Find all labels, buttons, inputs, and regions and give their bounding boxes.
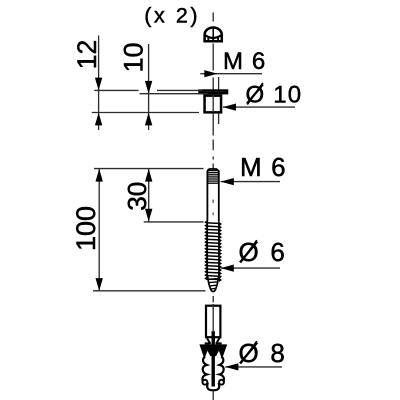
- Ø8 slash overlay: [240, 341, 256, 364]
- collar nub right: [216, 342, 222, 344]
- Ø6 slash overlay: [240, 240, 256, 263]
- dimension 100: [71, 169, 103, 291]
- threaded stud M6x100: [206, 169, 221, 292]
- svg-text:10: 10: [119, 42, 149, 72]
- dimension 10: [119, 42, 153, 130]
- arrow Ø10: [223, 104, 236, 111]
- collar nub left: [205, 342, 211, 344]
- leader Ø10: [223, 106, 295, 108]
- svg-text:(x 2): (x 2): [144, 3, 200, 27]
- plug center slot bar: [211, 331, 214, 386]
- thread line right of centerline (lower): [218, 114, 220, 124]
- extension line flange top right: [157, 89, 203, 91]
- extension line thread end: [144, 221, 204, 223]
- screw tip: [208, 276, 219, 292]
- extension line screw top: [94, 168, 204, 170]
- centerline above cap nut: [212, 13, 214, 22]
- stud outline: [207, 169, 218, 221]
- centerline below plug: [212, 392, 214, 400]
- extension line screw tip: [93, 290, 206, 292]
- cap nut M6: [205, 28, 222, 42]
- wood thread core right: [218, 221, 220, 277]
- centerline dash 1: [212, 140, 214, 151]
- funnel chamfer left: [207, 338, 210, 344]
- wood thread core left: [206, 221, 208, 277]
- arrow M6 screw: [221, 178, 234, 185]
- sleeve body: [205, 96, 222, 113]
- leader M6 top: [200, 73, 262, 75]
- plug tube: [206, 306, 220, 338]
- svg-text:Ø 8: Ø 8: [239, 338, 288, 368]
- centerline cap nut to M6 leader: [212, 44, 214, 71]
- M6 thread hatch: [207, 171, 218, 184]
- centerline inside tube: [212, 304, 214, 331]
- svg-text:Ø 6: Ø 6: [239, 237, 288, 267]
- leader Ø6: [221, 267, 280, 269]
- svg-text:12: 12: [72, 40, 102, 69]
- svg-text:M 6: M 6: [240, 152, 287, 182]
- extension line flange top left: [94, 89, 138, 91]
- centerline M6 leader to flange: [212, 78, 214, 90]
- sleeve flange: [200, 91, 228, 94]
- extension line flange bottom: [140, 93, 209, 95]
- centerline dot: [212, 157, 214, 160]
- centermark shank 1: [212, 200, 214, 204]
- leader M6 screw: [221, 181, 280, 183]
- dimension 30: [122, 169, 152, 222]
- centerline tip to plug: [212, 296, 214, 302]
- arrow M6 top: [204, 70, 217, 77]
- wood thread section: [206, 221, 221, 281]
- dimension 12: [72, 36, 103, 131]
- leader Ø8: [225, 366, 282, 368]
- svg-text:M 6: M 6: [223, 48, 266, 75]
- arrow Ø6: [221, 265, 234, 272]
- expansion body outline: [202, 357, 223, 391]
- svg-text:100: 100: [71, 206, 101, 251]
- centerline dash 2: [212, 164, 214, 169]
- wall plug Ø8: [199, 304, 227, 390]
- foot ring right: [219, 380, 224, 385]
- centerline in sleeve: [212, 95, 214, 112]
- Ø10 slash overlay: [247, 83, 263, 105]
- svg-text:30: 30: [122, 182, 152, 211]
- arrow Ø8: [225, 363, 238, 370]
- barb collar: [199, 344, 227, 356]
- thread line right of centerline (upper): [218, 77, 220, 90]
- centermark shank 2: [212, 213, 214, 216]
- foot ring left: [203, 380, 208, 385]
- funnel chamfer right: [216, 338, 219, 344]
- centerline below sleeve: [212, 114, 214, 136]
- extension line sleeve bottom: [92, 112, 199, 114]
